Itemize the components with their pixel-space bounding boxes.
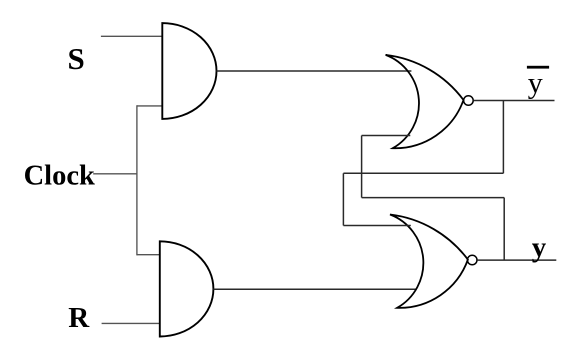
inversion bubble N1 [464,96,474,106]
wire S input [101,35,162,37]
wire feedback y vertical rise [503,198,505,261]
nor gate N2 [390,215,468,308]
and gate A1 [162,23,216,119]
svg-text:y: y [528,66,543,99]
wire y output [477,259,556,261]
svg-text:y: y [532,232,547,264]
wire feedback ybar vertical drop [502,101,504,174]
wire R input [102,322,160,324]
label ybar: overbar [527,66,549,69]
wire ybar output [474,100,555,102]
nor gate N1 [386,55,464,148]
wire Clock horizontal [93,173,137,175]
wire A2 output to NOR2 [213,288,416,290]
svg-text:S: S [68,41,85,76]
wire Clock stub to AND1 [137,105,162,107]
wire NOR2 top input [343,225,410,227]
wire Clock stub to AND2 [137,254,160,256]
wire feedback left vertical [342,173,344,225]
and gate A2 [160,241,214,336]
svg-text:R: R [68,302,90,334]
wire Clock vertical [136,105,138,255]
svg-text:Clock: Clock [24,161,95,192]
wire feedback horizontal B [362,197,505,199]
inversion bubble N2 [467,255,477,265]
wire NOR1 bottom input [362,135,411,137]
wire feedback vertical 1 [361,136,363,198]
wire A1 output to NOR1 [217,70,412,72]
wire feedback horizontal A [343,172,503,174]
